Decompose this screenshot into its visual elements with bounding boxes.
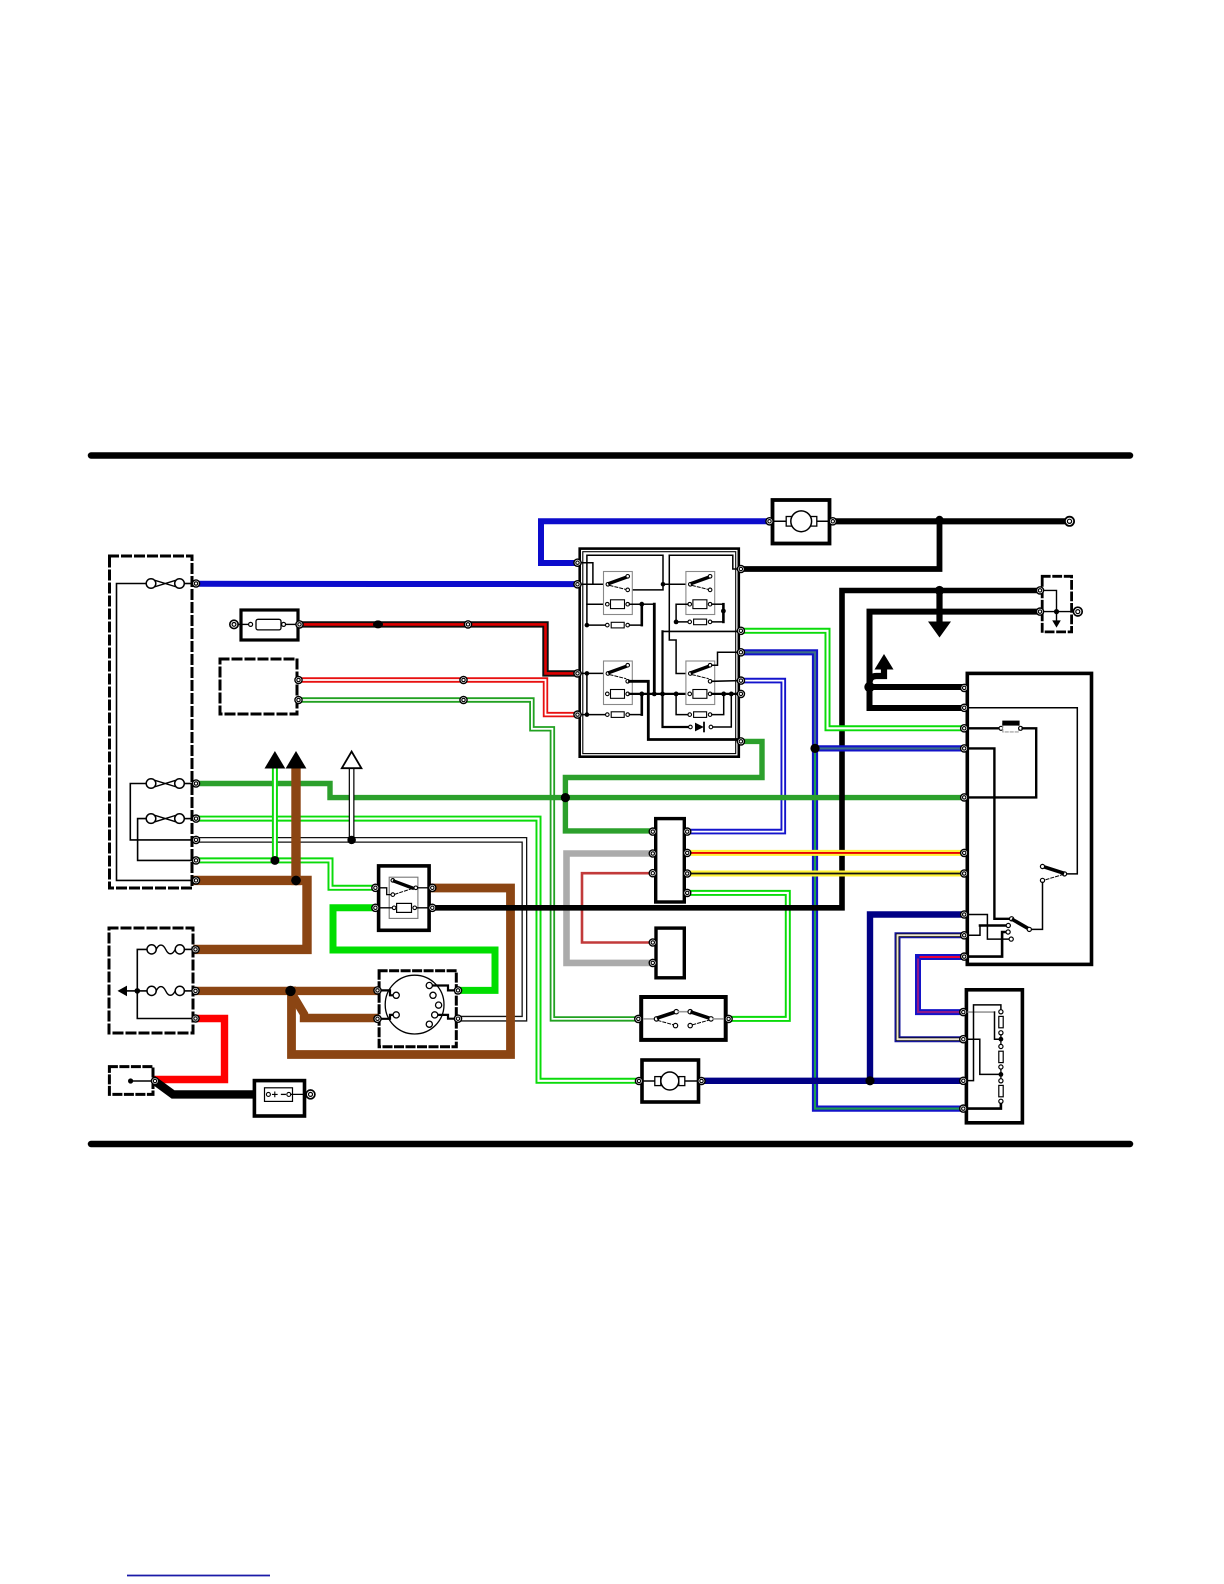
terminal: earth connector T1 [1036,587,1043,594]
switch: upper changeover [1062,872,1066,876]
terminal: heater switch R [725,1015,732,1022]
junction: blue node at heater control feed [810,744,819,753]
junction: black node at earth line [935,586,944,595]
starter solenoid stud (dashed) [109,1067,153,1095]
off-page arrow: white stem with open head [349,769,355,840]
earth ring terminal (wiper line) [1065,517,1074,526]
terminal: heater control T6 [961,849,968,856]
terminal: relay module R1 [737,565,744,572]
wire: dark blue from blower motor to resistor pack and control unit [701,915,962,1081]
off-page arrow: left feed [126,990,137,992]
terminal: ignition relay R1 [429,884,436,891]
switch: blower speed selector [966,748,1009,918]
wire: thick centre bus down to lower coil row [642,603,655,605]
terminal: relay module R4 [737,677,744,684]
junction: black node on wiper motor earth line [936,516,944,524]
resistor row under relay 2 [688,620,692,624]
wire: L2 feed to relay 1 contact [576,583,606,585]
wire: light-green from relay module to heater control unit [741,631,962,729]
terminal: heater control T10 [961,953,968,960]
wire: black from wiper motor to earth ring terminal [832,518,1066,524]
wire: yellow/black from connector block to heater control unit [686,871,962,877]
terminal: relay module R5 [737,690,744,697]
terminal: solenoid stud [151,1077,158,1084]
terminal: heater control T1 [961,684,968,691]
terminal: fuse box brown output [192,877,199,884]
diode D1 [663,694,689,727]
wire: internal link green fuse to white terminal [130,784,192,840]
terminal: distributor R1 [454,987,461,994]
terminal: aux fuse red output [192,1015,199,1022]
relay 3 (bottom-left) [576,672,606,674]
fuse F5 [147,986,156,995]
terminal: heater control T8 [961,911,968,918]
junction: redrawn nodes above arrow stems [271,856,280,865]
terminal: relay module L3 [574,670,581,677]
terminal: connector block L2 [649,850,656,857]
relay 1 (top-left) [604,572,633,615]
wire: yellow/red from connector block to heater control unit [686,850,962,856]
terminal: wiper motor R [829,518,836,525]
terminal: resistor pack T2 [960,1036,967,1043]
wire: relay4 coil row to terminal R5 [712,693,739,695]
fuse F3 (line fuse symbol) [146,814,156,824]
terminal: wiper motor L [766,518,773,525]
terminal: fuse box light-green 2 output [192,857,199,864]
terminal: earth connector T2 [1036,608,1043,615]
wire: feed to changeover switch common [966,708,1077,874]
terminal: heater control T7 [961,870,968,877]
terminal: connector block L3 [649,870,656,877]
wire: green hook from relay output joining green feed and connector block [565,741,762,831]
terminal: ignition relay L1 [372,884,379,891]
terminal: aux fuse brown output [192,987,199,994]
wire: brown diagonal branch to distributor (bottom) [292,993,376,1018]
connector: in-line on red/black wire [464,621,471,628]
heater control unit [966,673,1092,964]
connector: in-line on red wire [460,676,467,683]
terminal: relay module R6 [737,738,744,745]
wire: blue feed from main switch fuse to relay module (N/U) [196,581,574,587]
wire: top bus right and feed to terminal R1 [669,555,739,569]
terminal: relay module L2 [574,581,581,588]
wire: blue branch into heater control unit [815,745,962,751]
wire: relay3 NC to terminal R6 [630,681,740,741]
terminal: resistor pack T1 [960,1009,967,1016]
instrument / warning light module (dashed) [220,659,297,714]
wire: brown loop to ignition relay output [292,888,511,1055]
wire: red two-core from instrument module to relay module [299,680,574,715]
wire: grey from connector block to voltage stabiliser [567,854,654,963]
resistor chain [999,1010,1003,1014]
terminal: distributor R2 [454,1015,461,1022]
wire: light-green from fuse to heater blower motor [198,819,640,1081]
resistor row under relay 4 [688,713,692,717]
wire: brown feed from auxiliary fuse to distributor (top) [198,987,375,995]
top horizontal rule [91,452,1130,459]
wire: L1 feed [576,563,593,585]
terminal: ignition relay R2 [429,904,436,911]
terminal: connector block R2 [684,849,691,856]
wire: black from ignition relay across and up to earth connector box [432,591,1037,908]
connector block [656,819,685,902]
terminal: heater control T5 [961,794,968,801]
terminal: heater control T4 [961,745,968,752]
terminal: connector block L1 [649,828,656,835]
terminal: relay module R2 [737,627,744,634]
wire: long feed to relay 4 contact [669,555,686,673]
relay 4 (bottom-right) [686,661,715,705]
wire: red feed from auxiliary fuse box to starter solenoid terminal [158,1019,225,1080]
terminal: stabiliser T1 [649,939,656,946]
terminal: heater switch L [635,1015,642,1022]
wire: thin red from connector block to voltage stabiliser [582,873,653,942]
wire: blue loop from relay module to wiper motor (N/U) [541,521,768,563]
wire: black from earth connector box to heater control unit (lower) [870,612,1038,708]
wire: light-green from fuse to ignition relay switch feed [198,860,377,887]
wire: black from relay module up to wiper motor line [741,521,940,569]
terminal: in-line fuse output [296,621,303,628]
heater blower motor [642,1060,699,1102]
wire: blue/red-purple from heater control unit to resistor pack [918,957,962,1012]
fuse F1 (line fuse symbol) [146,579,156,589]
distributor (dashed) [379,971,456,1047]
blower resistor pack [966,990,1022,1123]
terminal: distributor L2 [374,1015,381,1022]
fuse F4 [147,945,156,954]
junction: green feed node [561,793,570,802]
wiper motor [773,500,830,544]
terminal: fuse box white input [192,836,199,843]
bottom horizontal rule [91,1141,1130,1148]
wire: coil common row [630,693,688,695]
off-page arrow: light-green stem [272,769,278,860]
terminal: resistor pack T4 [960,1105,967,1112]
wire: green two-core from instrument module to heater switch [299,700,640,1019]
wire: bright green coil feed from ignition relay to distributor [333,908,495,991]
wire: red/black ignition feed from in-line fuse to relay module [300,624,574,673]
auxiliary fuse box (dashed) [109,928,193,1033]
terminal: relay module L1 [574,559,581,566]
wire: light-green from connector block to heater switch [686,893,788,1019]
voltage stabiliser [656,928,684,978]
terminal: blower motor R [698,1077,705,1084]
terminal: relay module L4 [574,711,581,718]
terminal: blower motor L [635,1077,642,1084]
wire: internal bus [137,949,192,1018]
junction: dark blue node [865,1076,874,1085]
relay 2 (top-right) [686,572,715,615]
off-page arrow: brown stem [291,769,300,880]
in-line fuse holder [230,610,298,640]
terminal: stabiliser T2 [649,959,656,966]
junction: brown branch to off-page arrow [291,876,301,886]
terminal: fuse box green output [192,780,199,787]
wire: black battery cable from solenoid stud to battery [156,1082,266,1094]
junction: brown node at auxiliary fuse output [285,986,295,996]
fuse F2 (line fuse symbol) [146,779,156,789]
thermal cut-out [966,727,999,729]
terminal: fuse box blue output [192,580,199,587]
terminal: connector block R1 [684,828,691,835]
battery [254,1081,315,1116]
terminal: heater control T2 [961,704,968,711]
ground: bent black up arrow off-page [870,669,885,688]
terminal: fuse box light-green output [192,815,199,822]
footer link underline (blue) [127,1575,270,1577]
terminal: resistor pack T3 [960,1077,967,1084]
wire: TL coil spur [587,603,605,605]
junction: black earth node [864,682,874,692]
wire: black from earth junction to heater control unit (upper) [870,684,963,690]
junction: white wire branch to off-page arrow [347,836,355,844]
terminal: connector block R3 [684,870,691,877]
resistor row under relay 3 [606,713,610,717]
wire: relay4 NC to terminal R4 [712,680,739,683]
terminal: relay module R3 [737,649,744,656]
terminal: ignition relay L2 [372,904,379,911]
terminal: instrument module red output [295,676,302,683]
wire: relay1 NC to top bus [587,555,663,625]
terminal: aux fuse brown input [192,946,199,953]
terminal: connector block R4 [684,889,691,896]
junction: light-green branch to off-page arrow [271,856,280,865]
junction: in-line splice on red/black feed [373,620,383,628]
ignition relay [375,866,431,930]
resistor row under relay 1 [606,623,610,627]
terminal: heater control T3 [961,725,968,732]
terminal: instrument module green output [295,696,302,703]
terminal: heater control T9 [961,932,968,939]
wire: TL coil to resistor link [630,604,642,625]
wire: relay4 NO to terminal R3 [712,652,739,665]
wire: TR coil links [676,604,688,622]
wire: brown battery feed from main fuse box to auxiliary fuse box [196,880,307,949]
earth connector (dashed) [1040,576,1082,632]
wire: blue/cream from heater control unit to resistor pack [898,935,963,1039]
wire: white ignition switch feed to distributor [198,840,524,1019]
heater switch [641,997,726,1040]
main fuse / switch box (dashed) [110,556,193,888]
wire: blue two-core from relay module to connector block [686,681,783,832]
ground: black down arrow off-page [936,591,942,624]
terminal: distributor L1 [374,987,381,994]
wire: internal link light-green fuse to second light-green terminal [138,819,192,861]
wire: internal link top fuse to brown output [117,584,193,881]
wire: green main feed from fuse to heater unit [198,784,962,798]
wire: relay2 contact feed [663,583,687,585]
wire: mid bus to terminal R2 [663,630,740,632]
connector: in-line on green wire [460,696,467,703]
wire: blue/teal from relay module down the page to resistor pack [741,652,962,1108]
relay module (wiper delay / heated rear window relays) [576,549,739,757]
